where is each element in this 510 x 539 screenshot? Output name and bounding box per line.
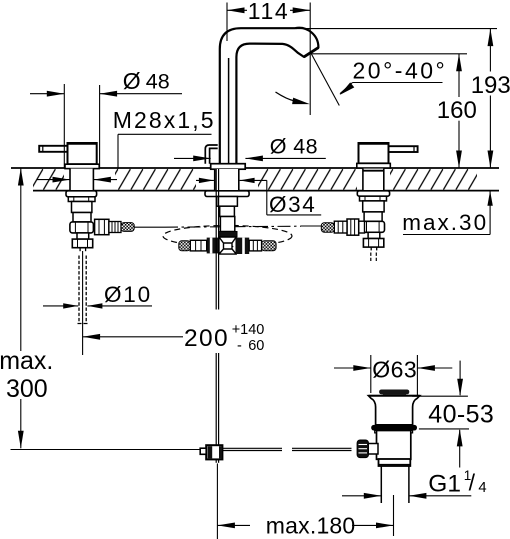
svg-text:114: 114 — [248, 0, 289, 24]
drain tailpipe — [380, 466, 382, 503]
svg-text:Ø10: Ø10 — [104, 282, 152, 307]
tee right braided hose — [262, 241, 277, 251]
left valve braided hose — [121, 223, 134, 232]
svg-text:+140: +140 — [232, 322, 265, 338]
M28 thread arrows at deck — [37, 179, 70, 181]
svg-text:Ø34: Ø34 — [269, 192, 316, 217]
right valve upper body — [363, 201, 384, 212]
drain plug cap (dark disc) — [379, 390, 409, 395]
left valve side port nut — [95, 219, 109, 234]
basin outline dashed ellipse — [163, 226, 292, 247]
svg-text:Ø63: Ø63 — [372, 356, 417, 382]
pop-up rod clamp tee — [206, 445, 222, 459]
left valve bottom nut — [72, 239, 92, 248]
right valve braided hose — [321, 223, 334, 233]
right valve lower body — [361, 221, 385, 232]
left handle escutcheon — [65, 164, 99, 168]
spout body (gooseneck outline) — [220, 28, 319, 164]
left valve centerline — [82, 251, 84, 355]
angle leader with arrow — [353, 82, 443, 84]
dim O10: arrows — [43, 305, 78, 307]
tee top cap (dark) — [220, 232, 237, 237]
svg-text:4: 4 — [478, 480, 486, 496]
dim O48 left: arrows — [30, 93, 64, 95]
outlet reference line (160) — [311, 53, 467, 55]
dim 193 line and arrows — [489, 29, 491, 72]
svg-text:Ø: Ø — [123, 68, 141, 94]
drain o-ring (dark band) — [371, 425, 417, 431]
dim 200 line and arrow — [83, 336, 183, 338]
drain plug cap step — [383, 394, 406, 396]
supply hose centerline left solid — [134, 226, 165, 228]
right handle lever — [389, 146, 418, 152]
dim 114 dimension line and arrows — [227, 9, 247, 11]
spout base escutcheon — [211, 164, 246, 170]
svg-text:Ø 48: Ø 48 — [270, 135, 318, 159]
left valve mid body — [73, 213, 91, 222]
dim O48 left: extension lines — [63, 84, 65, 168]
svg-text:max.: max. — [0, 347, 53, 375]
spout shank lock section — [217, 197, 238, 207]
right valve flange — [357, 191, 389, 196]
tee left hex adapter — [190, 240, 206, 251]
drain flange — [369, 396, 420, 425]
right supply pipe dashed stub — [370, 253, 372, 262]
spout mounting flange nut — [205, 191, 249, 197]
drain step band under o-ring — [375, 430, 413, 433]
supply hose centerline (dash-dot) — [165, 226, 301, 227]
countertop deck top line — [11, 167, 499, 169]
drain bottom rings — [379, 459, 411, 466]
left valve hex nut — [68, 197, 95, 202]
spout connection tube — [220, 217, 234, 232]
right handle body — [359, 143, 389, 163]
spout threaded section — [220, 206, 235, 216]
right valve side port stub — [359, 221, 365, 233]
left valve outlet stub — [79, 248, 81, 252]
right handle escutcheon — [357, 163, 391, 168]
dim max180 extension line right — [393, 495, 395, 536]
pop-up knob beside spout — [205, 145, 217, 164]
right valve hex nut — [360, 196, 387, 201]
angle ray 20-40 — [311, 54, 339, 106]
dim 114 extension lines — [226, 3, 228, 42]
dim O34: arrows at shank — [196, 179, 214, 181]
dim 40-53 bottom: arrow up to o-ring — [419, 428, 469, 430]
svg-text:G1: G1 — [428, 471, 461, 498]
tee left braided hose — [179, 241, 191, 251]
left valve upper body — [72, 202, 92, 213]
rod centerline extension to bottom — [216, 464, 218, 539]
tee right hex adapter — [249, 240, 261, 251]
dim O34 leader — [266, 180, 268, 215]
dim O48 middle: arrows — [174, 157, 211, 159]
drain knob stem — [368, 444, 379, 455]
svg-text:48: 48 — [146, 70, 170, 94]
spout shank through deck — [215, 169, 239, 191]
drain body — [377, 431, 411, 460]
left valve lower body — [70, 222, 94, 233]
svg-text:200: 200 — [184, 325, 229, 352]
label max.30 leader — [403, 234, 490, 236]
right valve shank through deck — [363, 169, 384, 191]
dim O63 extension lines — [370, 355, 372, 393]
left valve neck — [77, 233, 89, 239]
right valve outlet stub — [370, 247, 372, 250]
svg-text:M28x1,5: M28x1,5 — [113, 107, 216, 133]
svg-text:193: 193 — [471, 72, 510, 99]
right valve mid body — [364, 212, 382, 221]
countertop deck bottom line — [33, 190, 499, 192]
dim 160 line and arrows — [458, 54, 460, 97]
left valve side ribbed fitting — [109, 222, 121, 233]
label M28x1,5 leader — [118, 133, 212, 135]
left supply pipe dashed (O10) — [78, 256, 80, 323]
right valve bottom nut — [363, 239, 383, 248]
swing arc arrow — [276, 92, 295, 101]
right valve side port nut — [347, 219, 359, 235]
horizontal actuating rod to drain — [222, 447, 282, 449]
svg-text:max.180: max.180 — [266, 513, 356, 539]
max300 bottom reference line — [11, 449, 201, 451]
dim O63 arrows — [334, 367, 371, 369]
clamp left stub — [200, 448, 206, 454]
left handle body — [68, 143, 97, 164]
tee left nut (dark) — [207, 238, 219, 254]
right valve neck — [368, 232, 380, 238]
svg-text:-: - — [237, 338, 242, 354]
spout top reference line (193) — [296, 28, 497, 30]
svg-text:300: 300 — [6, 375, 48, 403]
lift rod inside spout — [228, 58, 230, 163]
svg-text:max.30: max.30 — [402, 210, 488, 235]
dim G1 1/4 arrows — [342, 495, 381, 497]
left valve shank through deck — [70, 169, 93, 191]
svg-text:/: / — [469, 469, 476, 495]
dim max300 line and arrows — [20, 168, 22, 351]
tee right nut (dark) — [236, 238, 249, 254]
pop-up rod lower section — [215, 353, 217, 445]
pop-up rod upper section — [215, 169, 217, 310]
left handle lever — [39, 146, 67, 152]
pop-up rod bottom stub — [215, 459, 217, 462]
tee block — [219, 237, 236, 254]
supply hose centerline right solid — [301, 225, 322, 227]
spout outlet face — [304, 48, 319, 57]
svg-text:160: 160 — [437, 97, 477, 124]
svg-text:40-53: 40-53 — [428, 400, 494, 428]
svg-text:60: 60 — [248, 338, 264, 354]
left valve flange — [66, 191, 97, 197]
right valve side ribbed fitting — [334, 221, 347, 233]
dim 40-53 top: arrow down to flange — [412, 395, 468, 397]
svg-text:20°-40°: 20°-40° — [353, 58, 448, 84]
dim max180 line and arrows — [217, 524, 250, 526]
deck hatching — [33, 169, 477, 190]
drain knob (ribbed, dark) — [357, 440, 368, 458]
